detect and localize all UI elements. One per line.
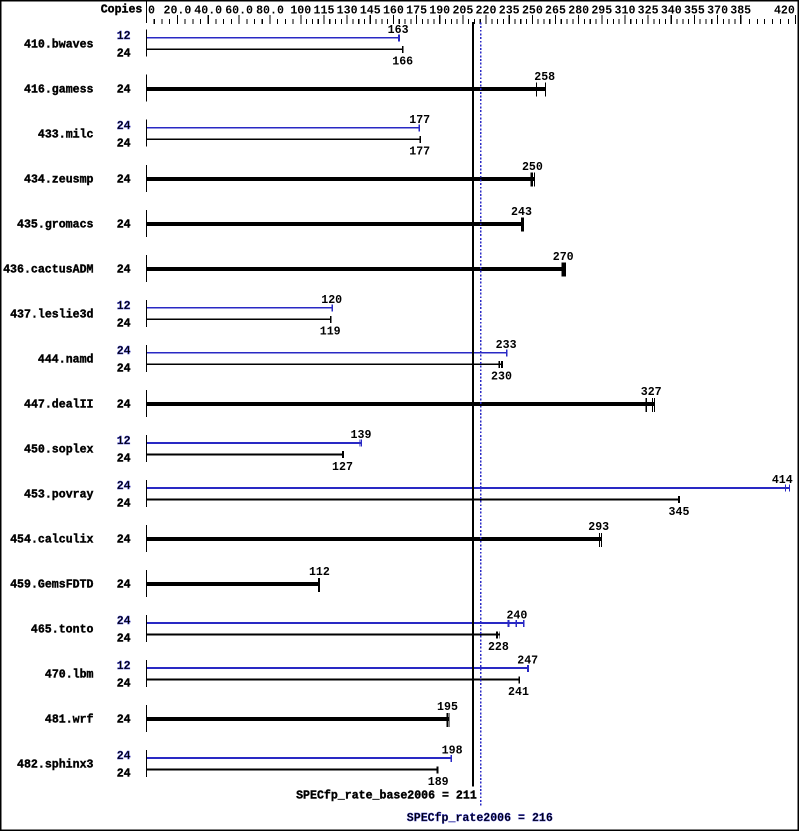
- svg-text:243: 243: [511, 205, 532, 219]
- svg-text:410.bwaves: 410.bwaves: [24, 37, 94, 51]
- run tick 453.povray peak #2: [789, 485, 790, 492]
- svg-text:40.0: 40.0: [194, 3, 222, 17]
- benchmark group 454.calculix: [10, 520, 609, 552]
- svg-text:130: 130: [337, 3, 358, 17]
- svg-text:355: 355: [684, 3, 705, 17]
- run tick 410.bwaves base #1: [402, 46, 404, 53]
- svg-text:189: 189: [428, 775, 449, 789]
- svg-text:24: 24: [117, 46, 131, 60]
- caption SPECfp_rate2006 (blue): [407, 811, 553, 825]
- axis segment 410.bwaves: [146, 30, 147, 57]
- svg-text:385: 385: [730, 3, 751, 17]
- caption SPECfp_rate_base2006: [296, 789, 477, 803]
- svg-text:0: 0: [148, 3, 155, 17]
- run tick 444.namd base #1: [499, 361, 500, 368]
- svg-text:24: 24: [117, 361, 131, 375]
- svg-text:270: 270: [553, 250, 574, 264]
- svg-text:24: 24: [117, 479, 131, 493]
- svg-text:230: 230: [491, 370, 512, 384]
- bar 410.bwaves base value 166: [147, 48, 403, 50]
- svg-text:12: 12: [117, 659, 131, 673]
- svg-text:437.leslie3d: 437.leslie3d: [10, 307, 93, 321]
- svg-text:250: 250: [522, 3, 543, 17]
- svg-text:12: 12: [117, 434, 131, 448]
- run tick 450.soplex peak #2: [361, 440, 362, 447]
- run tick 453.povray base #1: [678, 496, 680, 503]
- run tick 416.gamess base #1: [536, 83, 537, 97]
- svg-text:241: 241: [508, 685, 529, 699]
- svg-text:340: 340: [661, 3, 682, 17]
- axis segment 465.tonto: [146, 615, 147, 642]
- bar 433.milc peak value 177: [147, 127, 420, 129]
- bar 416.gamess base value 258: [147, 87, 546, 91]
- svg-text:24: 24: [117, 82, 131, 96]
- svg-text:24: 24: [117, 614, 131, 628]
- bar 450.soplex base value 127: [147, 453, 344, 455]
- run tick 465.tonto peak #1: [508, 620, 510, 627]
- svg-text:205: 205: [452, 3, 473, 17]
- svg-text:345: 345: [669, 505, 690, 519]
- svg-text:433.milc: 433.milc: [38, 127, 94, 141]
- run tick 465.tonto peak #2: [516, 620, 518, 627]
- svg-text:24: 24: [117, 713, 131, 727]
- svg-text:SPECfp_rate_base2006 = 211: SPECfp_rate_base2006 = 211: [296, 789, 477, 803]
- svg-text:233: 233: [496, 338, 517, 352]
- axis segment 459.GemsFDTD: [146, 570, 147, 597]
- bar 434.zeusmp base value 250: [147, 177, 534, 181]
- Copies column header: [101, 3, 143, 17]
- benchmark group 465.tonto: [31, 608, 527, 654]
- svg-text:195: 195: [437, 700, 458, 714]
- run tick 482.sphinx3 base #1: [437, 766, 439, 773]
- run tick 436.cactusADM base #2: [564, 263, 567, 277]
- bar 410.bwaves peak value 163: [147, 37, 400, 39]
- benchmark group 470.lbm: [45, 653, 538, 699]
- axis segment 481.wrf: [146, 705, 147, 732]
- bar 470.lbm peak value 247: [147, 667, 529, 669]
- svg-text:127: 127: [332, 460, 353, 474]
- bar 465.tonto base value 228: [147, 634, 500, 636]
- svg-text:450.soplex: 450.soplex: [24, 443, 94, 457]
- axis segment 436.cactusADM: [146, 255, 147, 282]
- svg-text:24: 24: [117, 632, 131, 646]
- svg-text:250: 250: [522, 160, 543, 174]
- run tick 416.gamess base #2: [545, 83, 546, 97]
- run tick 447.dealII base #3: [654, 398, 655, 412]
- run tick 459.GemsFDTD base #1: [318, 578, 320, 592]
- svg-text:459.GemsFDTD: 459.GemsFDTD: [10, 578, 93, 592]
- benchmark group 453.povray: [24, 473, 793, 519]
- svg-text:414: 414: [772, 473, 793, 487]
- svg-text:24: 24: [117, 263, 131, 277]
- svg-text:420: 420: [774, 3, 795, 17]
- svg-text:435.gromacs: 435.gromacs: [17, 217, 94, 231]
- svg-text:175: 175: [406, 3, 427, 17]
- run tick 433.milc base #1: [420, 136, 422, 143]
- svg-text:24: 24: [117, 398, 131, 412]
- axis segment 453.povray: [146, 480, 147, 507]
- bar 459.GemsFDTD base value 112: [147, 582, 320, 586]
- svg-text:190: 190: [429, 3, 450, 17]
- run tick 470.lbm peak #1: [527, 665, 529, 672]
- svg-text:228: 228: [488, 640, 509, 654]
- bar 437.leslie3d peak value 120: [147, 307, 333, 309]
- base median line 211: [472, 22, 474, 787]
- svg-text:24: 24: [117, 316, 131, 330]
- svg-text:Copies: Copies: [101, 3, 143, 17]
- svg-text:265: 265: [545, 3, 566, 17]
- y-axis line top segment: [146, 1, 147, 23]
- svg-text:293: 293: [588, 520, 609, 534]
- svg-text:240: 240: [506, 608, 527, 622]
- bar 465.tonto peak value 240: [147, 622, 524, 624]
- run tick 434.zeusmp base #1: [531, 173, 533, 187]
- svg-text:24: 24: [117, 173, 131, 187]
- bar 470.lbm base value 241: [147, 679, 520, 681]
- bar 437.leslie3d base value 119: [147, 318, 332, 320]
- axis segment 444.namd: [146, 345, 147, 372]
- svg-text:198: 198: [442, 743, 463, 757]
- bar 481.wrf base value 195: [147, 717, 450, 721]
- svg-text:220: 220: [476, 3, 497, 17]
- svg-text:24: 24: [117, 767, 131, 781]
- svg-text:481.wrf: 481.wrf: [45, 713, 94, 727]
- svg-text:434.zeusmp: 434.zeusmp: [24, 172, 94, 186]
- axis segment 482.sphinx3: [146, 750, 147, 777]
- run tick 444.namd peak #1: [506, 350, 508, 357]
- axis segment 416.gamess: [146, 75, 147, 102]
- run tick 453.povray peak #1: [785, 485, 786, 492]
- bar 454.calculix base value 293: [147, 537, 602, 541]
- bar 450.soplex peak value 139: [147, 442, 362, 444]
- bar 433.milc base value 177: [147, 138, 421, 140]
- run tick 470.lbm base #1: [519, 676, 521, 683]
- svg-text:325: 325: [638, 3, 659, 17]
- bar 453.povray base value 345: [147, 499, 680, 501]
- svg-text:177: 177: [409, 113, 430, 127]
- benchmark group 416.gamess: [24, 70, 555, 102]
- run tick 454.calculix base #2: [601, 533, 602, 547]
- svg-text:454.calculix: 454.calculix: [10, 533, 93, 547]
- axis segment 450.soplex: [146, 435, 147, 462]
- bar 444.namd base value 230: [147, 363, 503, 365]
- run tick 450.soplex base #1: [342, 451, 344, 458]
- svg-text:20.0: 20.0: [164, 3, 192, 17]
- svg-text:465.tonto: 465.tonto: [31, 623, 94, 637]
- run tick 447.dealII base #2: [652, 398, 653, 412]
- benchmark group 436.cactusADM: [3, 250, 574, 282]
- svg-text:SPECfp_rate2006 = 216: SPECfp_rate2006 = 216: [407, 811, 553, 825]
- run tick 465.tonto peak #3: [523, 620, 525, 627]
- svg-text:295: 295: [591, 3, 612, 17]
- svg-text:24: 24: [117, 749, 131, 763]
- run tick 447.dealII base #1: [646, 398, 647, 412]
- svg-text:12: 12: [117, 299, 131, 313]
- svg-text:80.0: 80.0: [256, 3, 284, 17]
- svg-text:145: 145: [360, 3, 381, 17]
- peak median line 216 (blue dotted): [480, 23, 482, 808]
- svg-text:119: 119: [320, 325, 341, 339]
- svg-text:115: 115: [314, 3, 335, 17]
- run tick 435.gromacs base #1: [521, 218, 524, 232]
- svg-text:24: 24: [117, 578, 131, 592]
- svg-text:24: 24: [117, 452, 131, 466]
- svg-text:24: 24: [117, 497, 131, 511]
- run tick 437.leslie3d peak #1: [332, 305, 334, 312]
- svg-text:177: 177: [409, 145, 430, 159]
- benchmark group 444.namd: [38, 338, 517, 384]
- svg-text:280: 280: [568, 3, 589, 17]
- benchmark group 433.milc: [38, 113, 430, 159]
- svg-text:60.0: 60.0: [225, 3, 253, 17]
- run tick 465.tonto base #1: [496, 631, 498, 638]
- axis segment 447.dealII: [146, 390, 147, 417]
- benchmark group 410.bwaves: [24, 23, 413, 69]
- svg-text:24: 24: [117, 344, 131, 358]
- svg-text:24: 24: [117, 677, 131, 691]
- run tick 437.leslie3d base #1: [330, 316, 332, 323]
- x-axis scale labels: [148, 3, 795, 17]
- axis segment 437.leslie3d: [146, 300, 147, 327]
- axis segment 434.zeusmp: [146, 165, 147, 192]
- benchmark group 437.leslie3d: [10, 293, 342, 339]
- axis segment 435.gromacs: [146, 210, 147, 237]
- svg-text:160: 160: [383, 3, 404, 17]
- svg-text:235: 235: [499, 3, 520, 17]
- axis segment 470.lbm: [146, 660, 147, 687]
- run tick 433.milc peak #1: [418, 125, 420, 132]
- svg-text:166: 166: [392, 55, 413, 69]
- svg-text:416.gamess: 416.gamess: [24, 82, 94, 96]
- svg-text:482.sphinx3: 482.sphinx3: [17, 758, 94, 772]
- bar 447.dealII base value 327: [147, 402, 654, 406]
- run tick 481.wrf base #1: [447, 713, 448, 727]
- axis segment 433.milc: [146, 120, 147, 147]
- run tick 450.soplex peak #1: [359, 440, 360, 447]
- run tick 465.tonto base #2: [498, 631, 501, 638]
- bar 453.povray peak value 414: [147, 487, 790, 489]
- benchmark group 434.zeusmp: [24, 160, 543, 192]
- svg-text:470.lbm: 470.lbm: [45, 668, 94, 682]
- svg-text:258: 258: [534, 70, 555, 84]
- bar 436.cactusADM base value 270: [147, 267, 565, 271]
- run tick 482.sphinx3 peak #1: [451, 755, 453, 762]
- svg-text:310: 310: [615, 3, 636, 17]
- svg-text:24: 24: [117, 136, 131, 150]
- svg-text:247: 247: [517, 653, 538, 667]
- svg-text:436.cactusADM: 436.cactusADM: [3, 262, 93, 276]
- svg-text:327: 327: [641, 385, 662, 399]
- benchmark group 481.wrf: [45, 700, 458, 732]
- svg-text:139: 139: [351, 428, 372, 442]
- run tick 454.calculix base #1: [599, 533, 600, 547]
- bar 482.sphinx3 peak value 198: [147, 757, 452, 759]
- svg-text:24: 24: [117, 218, 131, 232]
- bar 435.gromacs base value 243: [147, 222, 524, 226]
- svg-text:12: 12: [117, 29, 131, 43]
- svg-text:444.namd: 444.namd: [38, 352, 94, 366]
- benchmark group 450.soplex: [24, 428, 371, 474]
- axis segment 454.calculix: [146, 525, 147, 552]
- svg-text:24: 24: [117, 533, 131, 547]
- run tick 481.wrf base #2: [448, 713, 449, 727]
- bar 444.namd peak value 233: [147, 352, 508, 354]
- svg-text:100: 100: [290, 3, 311, 17]
- x-axis tick marks: [154, 15, 796, 24]
- svg-text:112: 112: [309, 565, 330, 579]
- benchmark group 447.dealII: [24, 385, 662, 417]
- svg-text:24: 24: [117, 119, 131, 133]
- svg-text:120: 120: [321, 293, 342, 307]
- bar 482.sphinx3 base value 189: [147, 769, 438, 771]
- svg-text:370: 370: [707, 3, 728, 17]
- run tick 434.zeusmp base #2: [534, 173, 535, 187]
- run tick 436.cactusADM base #1: [562, 263, 565, 277]
- run tick 410.bwaves peak #1: [398, 35, 400, 42]
- run tick 444.namd base #2: [501, 361, 503, 368]
- svg-text:453.povray: 453.povray: [24, 488, 94, 502]
- benchmark group 459.GemsFDTD: [10, 565, 330, 597]
- svg-text:163: 163: [388, 23, 409, 37]
- svg-text:447.dealII: 447.dealII: [24, 398, 94, 412]
- benchmark group 482.sphinx3: [17, 743, 463, 789]
- benchmark group 435.gromacs: [17, 205, 532, 237]
